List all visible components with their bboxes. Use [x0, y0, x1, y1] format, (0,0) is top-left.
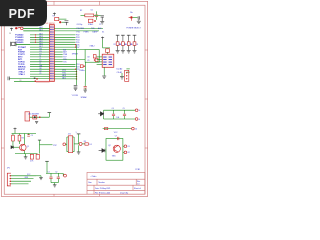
svg-text:24: 24	[135, 128, 137, 130]
svg-text:12MHz: 12MHz	[79, 70, 85, 72]
svg-text:Sheet of: Sheet of	[134, 187, 141, 190]
svg-text:<Title>: <Title>	[91, 175, 98, 178]
capacitor C5 black	[75, 79, 77, 85]
gnd below labels	[121, 73, 123, 76]
diode D6	[98, 112, 103, 116]
svg-text:PDF: PDF	[9, 7, 35, 21]
svg-text:R4: R4	[22, 138, 24, 140]
svg-text:Ru: Ru	[130, 12, 133, 14]
wire to U1 pin rows	[23, 27, 49, 29]
rail top	[12, 133, 37, 135]
gnd buzzer	[35, 121, 38, 123]
svg-text:R0: R0	[20, 80, 22, 82]
vcc above R1	[53, 13, 56, 16]
svg-text:C8: C8	[87, 56, 89, 58]
svg-text:1.0: 1.0	[137, 184, 140, 186]
svg-text:C1: C1	[48, 172, 50, 174]
svg-text:EA/VP: EA/VP	[93, 30, 99, 33]
terminal OUT2	[123, 151, 124, 153]
svg-text:D1: D1	[89, 144, 91, 146]
terminal left of J3	[63, 143, 66, 146]
svg-text:X1: X1	[39, 73, 41, 75]
black tick row ends	[34, 78, 36, 79]
wire loop drop	[85, 62, 87, 81]
svg-text:POWER SELECT: POWER SELECT	[126, 27, 141, 29]
diode D5	[130, 16, 132, 18]
vcc T buzzer	[48, 112, 52, 114]
svg-text:XTAL1: XTAL1	[88, 23, 93, 26]
vcc T led	[77, 133, 81, 135]
svg-text:DQ A0: DQ A0	[117, 68, 123, 71]
svg-text:AD1: AD1	[39, 29, 42, 32]
capacitor C10	[138, 16, 139, 21]
ic U2 body	[102, 54, 114, 67]
crystal Y2 cluster	[80, 65, 83, 68]
svg-text:R5: R5	[131, 44, 133, 46]
capacitor C3 left	[8, 77, 9, 81]
resistor R3	[85, 14, 94, 17]
LED D1	[79, 142, 82, 145]
buzzer LS1	[25, 112, 30, 121]
wire rail bottom	[103, 128, 132, 130]
capacitor C15	[50, 173, 52, 176]
resistor R8	[18, 135, 21, 141]
capacitor C11	[84, 82, 86, 87]
svg-text:C4: C4	[112, 108, 114, 110]
svg-text:C5: C5	[123, 108, 125, 110]
resistor-LED column 3	[125, 35, 133, 53]
resistor R11	[36, 154, 39, 159]
svg-text:7805: 7805	[112, 155, 116, 157]
sheet border inner	[4, 5, 145, 194]
wire filter rail	[46, 172, 63, 174]
wire rail top	[104, 109, 136, 111]
svg-text:Date: 25-May-2021: Date: 25-May-2021	[95, 187, 110, 190]
svg-text:File: E:\51mcu.ddb: File: E:\51mcu.ddb	[95, 192, 110, 194]
capacitor C4	[101, 16, 104, 21]
svg-text:PSEN: PSEN	[84, 31, 90, 33]
gnd Q1	[24, 157, 28, 159]
svg-text:X1: X1	[102, 31, 104, 33]
border zone ticks	[1, 1, 147, 196]
resistor R7	[12, 135, 15, 141]
connector J1 pins	[10, 175, 12, 177]
svg-text:Q1: Q1	[27, 146, 29, 148]
connector J1	[7, 173, 11, 186]
svg-text:R4: R4	[125, 44, 127, 46]
vcc T right	[38, 139, 41, 141]
svg-text:SPEAK: SPEAK	[81, 96, 88, 99]
terminal VIN2	[135, 118, 138, 121]
svg-text:XTAL1: XTAL1	[19, 73, 26, 76]
svg-text:P25: P25	[63, 62, 66, 64]
vertical bus right of pins	[75, 45, 77, 79]
svg-text:Drawn By:: Drawn By:	[120, 192, 129, 194]
svg-text:J3 1: J3 1	[68, 133, 71, 135]
vcc node	[101, 37, 104, 40]
ic U2 inner text	[103, 57, 112, 65]
input diode	[11, 146, 13, 149]
junction + gnd	[51, 182, 58, 184]
mcu U1 right pin wires	[54, 27, 103, 29]
vcc filter T	[45, 160, 49, 162]
exit wire	[40, 144, 53, 146]
capacitor C16	[57, 173, 59, 176]
svg-text:C6 30p: C6 30p	[77, 24, 83, 26]
power switch S1	[10, 28, 13, 31]
resistor-LED column 2	[119, 35, 127, 53]
svg-text:P37: P37	[53, 145, 56, 147]
capacitor C5b	[27, 135, 30, 137]
diode D4	[33, 115, 37, 119]
svg-text:C5: C5	[31, 135, 33, 137]
junction node	[59, 21, 61, 23]
svg-text:Q2: Q2	[108, 145, 110, 147]
svg-text:CK A1: CK A1	[117, 71, 122, 74]
wire led row	[74, 143, 79, 145]
svg-text:R2: R2	[80, 10, 82, 12]
sheet border outer	[1, 1, 147, 196]
svg-text:P31: P31	[77, 31, 80, 33]
svg-text:P30 RXD: P30 RXD	[77, 28, 85, 30]
diode D7	[99, 149, 105, 153]
terminal VO	[62, 173, 64, 175]
regulator loop	[106, 139, 123, 161]
svg-text:P15/AD5: P15/AD5	[15, 41, 24, 44]
capacitor C1	[65, 21, 69, 25]
transistor Q1	[20, 144, 27, 151]
ic U2 left pins	[97, 56, 103, 58]
crystal loop	[85, 50, 99, 63]
svg-text:R2: R2	[114, 44, 116, 46]
mcu U1 pin numbers	[50, 27, 54, 79]
resistor R6	[106, 49, 110, 53]
svg-text:Y1 12M: Y1 12M	[72, 95, 79, 97]
svg-text:JP1: JP1	[7, 168, 10, 170]
connector J2	[125, 70, 129, 81]
svg-text:AD1: AD1	[62, 77, 66, 80]
svg-text:C7: C7	[115, 135, 117, 137]
resistor R5 below	[89, 19, 93, 22]
mcu U1 body	[50, 25, 55, 82]
crystal Y1 left	[11, 42, 30, 46]
resistor R10	[30, 154, 33, 159]
title block table	[87, 172, 145, 194]
transistor Q2	[113, 145, 120, 152]
vcc Q1	[14, 128, 17, 131]
capacitor C2	[96, 11, 98, 14]
terminal GND2	[132, 127, 135, 130]
pdf badge	[0, 0, 47, 26]
wire rail 2	[104, 118, 136, 120]
svg-text:XTAL2: XTAL2	[90, 45, 95, 48]
svg-text:O1: O1	[127, 146, 130, 148]
mcu U1 left pin wires	[24, 27, 50, 29]
ic U2 gnd	[103, 67, 105, 76]
resistor-LED column 4	[131, 35, 139, 53]
svg-text:O2: O2	[127, 152, 130, 154]
svg-text:C9: C9	[87, 60, 89, 62]
gnd J1	[36, 175, 41, 177]
svg-text:C7: C7	[99, 24, 101, 26]
svg-text:SPKER: SPKER	[72, 54, 79, 56]
svg-text:C6: C6	[91, 10, 93, 12]
resistor-LED column 1	[114, 35, 122, 53]
svg-text:PCB1: PCB1	[135, 169, 140, 171]
wire buzzer out	[30, 116, 50, 118]
svg-text:C2: C2	[55, 172, 57, 174]
svg-text:Number: Number	[99, 182, 106, 184]
terminal P1	[21, 27, 24, 30]
svg-text:Size: Size	[88, 182, 92, 184]
svg-text:104: 104	[116, 117, 119, 119]
terminal OUT1	[123, 145, 124, 147]
pin end ticks	[75, 44, 77, 79]
svg-text:5: 5	[76, 132, 77, 134]
gnd under led row	[78, 145, 80, 151]
rail bottom	[15, 153, 38, 155]
red bus row below U1	[14, 80, 36, 82]
svg-text:R3: R3	[119, 44, 121, 46]
terminal VIN	[135, 109, 138, 112]
